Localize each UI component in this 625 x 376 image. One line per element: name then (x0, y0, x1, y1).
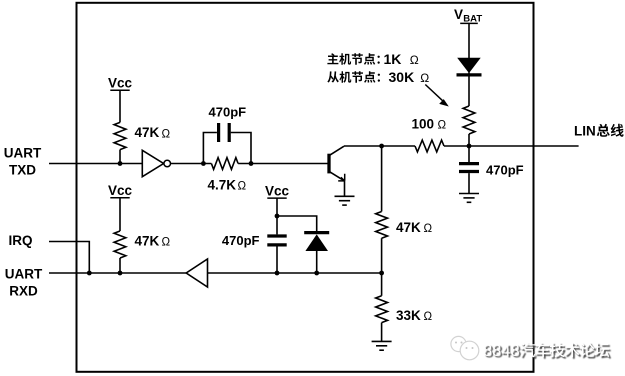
svg-text:47K: 47K (135, 125, 160, 140)
svg-text:47K: 47K (396, 220, 421, 235)
resistor R1 47K (TXD pull-up) (114, 122, 126, 149)
wire VBAT to D1 (468, 23, 470, 58)
wire R1 to TXD line (119, 150, 121, 164)
svg-text:IRQ: IRQ (9, 233, 33, 248)
power symbol VBAT (454, 7, 482, 25)
svg-text:8848: 8848 (483, 342, 520, 360)
capacitor C3 470pF (LIN filter) (459, 146, 479, 194)
svg-text:Vcc: Vcc (265, 184, 290, 199)
junction C2/RXD (275, 271, 280, 276)
wire R5 to LIN line (468, 134, 470, 146)
diode D1 (series, VBAT) (457, 58, 482, 75)
junction collector/divider (379, 144, 384, 149)
buffer U2 (RXD, points left) (186, 259, 207, 287)
wire Q1 collector to R7 (344, 145, 415, 147)
svg-text:UART: UART (5, 266, 43, 281)
wire RC to Q1 base (238, 163, 328, 165)
resistor R4 33K (divider bottom) (376, 296, 388, 323)
junction RC left node (201, 161, 206, 166)
wire UART TXD input to inverter (49, 163, 142, 165)
svg-text:4.7K: 4.7K (208, 177, 237, 192)
svg-text:Ω: Ω (424, 223, 433, 235)
svg-text:Ω: Ω (162, 128, 171, 140)
resistor R6 47K (IRQ pull-up) (114, 231, 126, 258)
svg-text:Ω: Ω (424, 311, 433, 323)
svg-text:Ω: Ω (410, 53, 419, 67)
wire IRQ to RXD line (49, 242, 89, 274)
junction IRQ/RXD (87, 271, 92, 276)
wire Vcc to R1 (119, 90, 121, 122)
Vcc symbol (IRQ pull-up) (108, 183, 133, 198)
wire LIN node down to R3 (381, 146, 383, 212)
wire buffer input from divider node (208, 272, 382, 274)
wire branch to D2 cathode (277, 216, 317, 231)
resistor R7 100 ohm (415, 140, 444, 152)
wire Vcc to R6 (119, 198, 121, 231)
svg-text:Ω: Ω (438, 120, 447, 132)
capacitor C1 470pF (parallel with R2) (203, 123, 251, 164)
svg-text:1K: 1K (384, 51, 402, 67)
wire Vcc to C2 (276, 198, 278, 234)
junction TXD/R1 (118, 161, 123, 166)
wire LIN bus output (444, 145, 579, 147)
svg-text:47K: 47K (135, 233, 160, 248)
svg-text:Ω: Ω (238, 180, 247, 192)
annotation: master node 1K ohm (327, 53, 379, 64)
diode D2 (clamp to Vcc) (304, 233, 329, 273)
svg-text:Vcc: Vcc (108, 183, 133, 198)
annotation arrow to R5 (425, 85, 449, 107)
junction LIN/VBAT branch (467, 144, 472, 149)
ground (C3) (459, 194, 479, 203)
svg-text:UART: UART (4, 146, 42, 161)
inverter U1 (TXD) (142, 150, 170, 176)
svg-text:470pF: 470pF (209, 104, 247, 119)
wire inverter output to RC network (171, 163, 212, 165)
junction divider/RXD (379, 271, 384, 276)
junction RXD/R6 (118, 271, 123, 276)
svg-text:33K: 33K (396, 308, 421, 323)
junction Vcc branch (275, 214, 280, 219)
junction D2/RXD (314, 271, 319, 276)
svg-text:100: 100 (412, 116, 435, 131)
svg-text:V: V (454, 7, 463, 22)
svg-text:Ω: Ω (420, 71, 429, 85)
wire R6 to RXD line (119, 258, 121, 273)
svg-text:470pF: 470pF (222, 233, 260, 248)
svg-text:470pF: 470pF (486, 162, 524, 177)
wire R4 to ground (381, 323, 383, 342)
annotation: slave node 30K ohm (327, 71, 380, 83)
watermark logo (451, 336, 479, 359)
svg-text:Vcc: Vcc (108, 76, 133, 91)
Vcc symbol (RXD clamp) (265, 184, 290, 199)
wire UART RXD output from buffer (49, 272, 186, 274)
svg-text:LIN: LIN (574, 124, 596, 139)
resistor R5 1K/30K pull-up (463, 106, 475, 134)
wire D1 to R5 (468, 72, 470, 106)
ground (Q1 emitter) (335, 196, 355, 205)
svg-text:RXD: RXD (9, 283, 38, 298)
svg-text:TXD: TXD (9, 163, 36, 178)
wire R3 to R4 through RXD junction (381, 238, 383, 296)
Vcc symbol (TXD pull-up) (108, 76, 133, 91)
capacitor C2 470pF (267, 236, 286, 273)
ground (R4) (372, 341, 392, 350)
resistor R3 47K (divider top) (376, 212, 388, 239)
transistor Q1 NPN (329, 146, 345, 196)
svg-text:Ω: Ω (162, 236, 171, 248)
svg-text:30K: 30K (389, 69, 415, 85)
junction RC right node (249, 161, 254, 166)
resistor R2 4.7K (211, 158, 238, 170)
